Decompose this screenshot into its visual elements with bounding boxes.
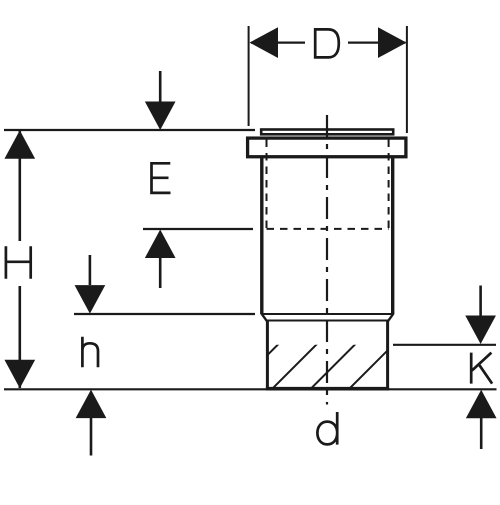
wire: E top arrow stem [159, 71, 162, 102]
wire: E bottom arrow stem [159, 258, 162, 288]
fitting: hidden bore left dashed [266, 140, 268, 229]
label D [314, 28, 339, 58]
fitting: shoulder lower thin line [267, 320, 389, 322]
wire: h bottom arrow stem [90, 418, 93, 456]
fitting: shoulder chamfer left [262, 314, 267, 321]
hatch line 2 [271, 344, 317, 390]
wire: bottom reference line [4, 388, 497, 390]
wire: H dimension stem lower [18, 286, 21, 388]
wire: K top reference line [393, 344, 496, 346]
fitting: bottom edge [266, 387, 389, 391]
wire: h top reference line [74, 313, 255, 315]
wire: H dimension stem upper [18, 131, 21, 241]
arrowhead D right [378, 27, 407, 58]
arrowhead h bottom [76, 390, 107, 419]
label h [82, 337, 98, 367]
hatch lines 45deg in spigot [233, 344, 433, 390]
hatch line 5 [387, 344, 433, 390]
wire: E bottom reference line [143, 228, 253, 230]
hatch line 1 [233, 344, 279, 390]
wire: K bottom arrow stem [480, 418, 483, 449]
fitting: shoulder chamfer right [388, 314, 393, 321]
fitting: flange rect [248, 138, 406, 157]
wire: D extension line right [406, 26, 408, 133]
fitting: shoulder upper thin line [262, 313, 393, 315]
fitting: upper body left wall [260, 156, 263, 314]
label H [6, 246, 31, 278]
hatch line 4 [348, 344, 394, 390]
fitting: spigot right wall [386, 321, 389, 389]
arrowhead E bottom [145, 230, 176, 259]
label d [317, 412, 337, 445]
wire: D dimension line left segment [251, 41, 305, 43]
arrowhead H top [4, 130, 35, 159]
arrowhead h top [75, 285, 106, 314]
fitting: upper body right wall [391, 156, 394, 314]
fitting: spigot left wall [266, 321, 269, 389]
wire: h top arrow stem [89, 255, 92, 285]
arrowhead K bottom [466, 390, 497, 419]
wire: D extension line left [248, 26, 250, 126]
label K [471, 353, 492, 384]
wire: H top reference line [4, 129, 255, 131]
fitting: hidden socket bottom dashed [267, 228, 389, 230]
fitting: hidden bore right dashed [388, 140, 390, 229]
arrowhead K top [465, 316, 496, 345]
wire: K top arrow stem [479, 286, 482, 317]
arrowhead H bottom [4, 360, 35, 389]
wire: D dimension line right segment [348, 41, 406, 43]
arrowhead D left [250, 27, 279, 58]
label E [150, 162, 170, 194]
fitting: centerline dash-dot [326, 115, 328, 405]
fitting: top sealing-ring cap rect [261, 130, 393, 135]
arrowhead E top [145, 102, 176, 131]
hatch line 3 [310, 344, 356, 390]
